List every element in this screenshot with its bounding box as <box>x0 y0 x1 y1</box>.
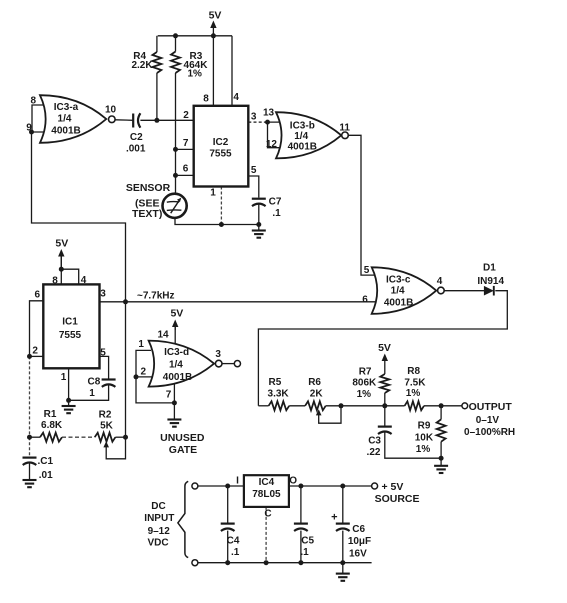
svg-text:C7: C7 <box>269 196 282 207</box>
svg-text:R1: R1 <box>44 409 57 420</box>
capacitor C1 <box>23 457 37 459</box>
wire C7 to ground <box>258 205 260 225</box>
svg-text:VDC: VDC <box>147 538 168 549</box>
wire IC2 pin 5 to C7 <box>248 176 258 198</box>
terminal DC input minus <box>192 560 198 566</box>
svg-text:R5: R5 <box>269 377 282 388</box>
capacitor C4 <box>221 522 235 524</box>
wire R5 R6 divider line <box>258 405 268 407</box>
svg-text:1%: 1% <box>357 389 372 400</box>
resistor R7 <box>380 374 389 393</box>
wire 5V rail to IC2 pins 8 and 4 <box>158 35 232 37</box>
brace DC input <box>178 481 188 557</box>
svg-text:1/4: 1/4 <box>294 131 308 142</box>
wire IC1 pin 3 7.7kHz line to IC3-c pin 6 <box>100 301 379 303</box>
wire IC2 pin 1 to sensor return <box>220 187 222 225</box>
wire DC input top rail <box>198 485 244 487</box>
node R1 C1 <box>27 435 32 440</box>
svg-text:3: 3 <box>100 289 106 300</box>
op-amp gate IC3-d <box>149 341 215 387</box>
wire IC4 common lead <box>265 507 267 563</box>
svg-text:806K: 806K <box>352 378 377 389</box>
svg-text:5V: 5V <box>209 9 222 21</box>
svg-text:GATE: GATE <box>169 444 197 456</box>
wire IC1 pin 5 to C8 <box>100 356 109 378</box>
node R3 pin 7 <box>173 147 178 152</box>
wire IC3-b input pin 12 tie <box>268 122 286 148</box>
wire between R1 and R2 <box>62 436 95 438</box>
potentiometer R2 <box>95 433 116 442</box>
svg-text:4: 4 <box>233 92 239 103</box>
svg-text:5: 5 <box>251 165 257 176</box>
terminal IC3-d output <box>234 361 240 367</box>
ground under IC3-d <box>173 403 175 420</box>
wire C5 leads <box>300 486 302 523</box>
svg-text:2: 2 <box>32 346 38 357</box>
svg-text:4001B: 4001B <box>163 372 192 383</box>
svg-text:+ 5V: + 5V <box>382 481 404 493</box>
svg-text:12: 12 <box>266 139 278 150</box>
svg-text:1: 1 <box>138 339 144 350</box>
wire IC2 pin 4 supply <box>231 36 233 106</box>
wire IC1 pin3 node down to R2 <box>125 302 127 437</box>
capacitor C8 <box>102 378 116 380</box>
svg-text:IC3-d: IC3-d <box>164 347 189 358</box>
svg-text:INPUT: INPUT <box>144 513 174 524</box>
svg-text:IC3-c: IC3-c <box>386 274 411 285</box>
svg-text:.01: .01 <box>39 470 53 481</box>
svg-text:R7: R7 <box>359 366 372 377</box>
svg-text:.C1: .C1 <box>38 456 54 467</box>
svg-text:2K: 2K <box>310 388 324 399</box>
svg-text:.001: .001 <box>126 143 146 154</box>
wire R2 wiper loop <box>106 437 125 459</box>
svg-text:1/4: 1/4 <box>58 114 72 125</box>
svg-text:5: 5 <box>364 265 370 276</box>
svg-text:C5: C5 <box>301 535 314 546</box>
wire IC3-c output pin 4 to D1 <box>444 290 484 292</box>
node IC3-a pin 9 <box>29 130 34 135</box>
svg-text:5V: 5V <box>170 308 183 320</box>
svg-text:C3: C3 <box>368 435 381 446</box>
svg-text:3.3K: 3.3K <box>268 388 290 399</box>
potentiometer R6 <box>305 401 326 410</box>
node R7 junction <box>382 403 387 408</box>
node R3 pin 6 <box>173 173 178 178</box>
node 13 <box>265 120 270 125</box>
wire IC2 pin 6 <box>176 174 194 176</box>
svg-text:R6: R6 <box>308 377 321 388</box>
wire sensor bottom return <box>175 219 259 225</box>
svg-text:5V: 5V <box>55 237 68 249</box>
svg-text:4001B: 4001B <box>51 126 80 137</box>
svg-text:IC3-a: IC3-a <box>54 102 79 113</box>
wire DC input bottom rail <box>198 562 372 564</box>
svg-text:6: 6 <box>35 289 41 300</box>
wire C6 leads <box>342 486 344 523</box>
node R4 C2 pin2 <box>154 118 159 123</box>
svg-text:R2: R2 <box>99 409 112 420</box>
svg-text:1: 1 <box>61 372 67 383</box>
svg-text:8: 8 <box>31 95 37 106</box>
ground under R9 <box>440 458 442 466</box>
wire D1 cathode return to R5 <box>258 291 507 406</box>
node C4 top <box>225 484 230 489</box>
wire IC3-b input pin 13 stub <box>268 121 286 123</box>
terminal OUTPUT <box>462 403 468 409</box>
svg-text:3: 3 <box>215 349 221 360</box>
node IC1 output 7.7kHz <box>123 299 128 304</box>
svg-text:1%: 1% <box>406 388 421 399</box>
svg-text:4: 4 <box>437 276 443 287</box>
wire IC3-d output stub <box>222 363 234 365</box>
node C5 bottom <box>298 560 303 565</box>
wire IC1 pin 2 stub <box>30 355 44 357</box>
capacitor C7 <box>252 198 266 200</box>
capacitor C5 <box>294 522 308 524</box>
svg-text:16V: 16V <box>349 548 367 559</box>
svg-text:7.5K: 7.5K <box>404 378 426 389</box>
wire IC3-b output pin 11 to IC3-c pin 5 <box>348 135 378 275</box>
svg-text:2: 2 <box>183 110 189 121</box>
svg-text:UNUSED: UNUSED <box>160 432 205 444</box>
svg-text:5: 5 <box>100 348 106 359</box>
svg-text:1/4: 1/4 <box>169 359 183 370</box>
svg-text:D1: D1 <box>483 262 496 273</box>
svg-text:6: 6 <box>362 295 368 306</box>
svg-text:SENSOR: SENSOR <box>126 182 171 194</box>
voltage regulator IC4 78L05 <box>244 475 289 507</box>
svg-text:4001B: 4001B <box>288 142 317 153</box>
svg-text:1%: 1% <box>187 68 202 79</box>
op-amp IC1 7555 box <box>43 284 99 368</box>
wire R6 wiper loop <box>319 406 341 423</box>
wire IC3-d pin 7 lead <box>173 384 175 403</box>
svg-text:+: + <box>331 511 337 523</box>
wire C4 leads <box>227 486 229 523</box>
svg-text:3: 3 <box>251 111 257 122</box>
wire R7 top lead to 5V <box>384 359 386 374</box>
node R2 wiper <box>123 435 128 440</box>
svg-text:C6: C6 <box>352 524 365 535</box>
node C7 ground <box>256 222 261 227</box>
svg-text:5K: 5K <box>100 420 114 431</box>
node R3 top <box>173 33 178 38</box>
node C4 bottom <box>225 560 230 565</box>
node IC3-d pin 2 <box>134 374 139 379</box>
wire IC3-d supply pin 14 <box>174 326 176 343</box>
svg-text:6: 6 <box>183 164 189 175</box>
ground under C1 <box>23 479 37 481</box>
node IC3-d pin 7 <box>172 400 177 405</box>
wire IC3-a output to C2 <box>115 119 133 122</box>
resistor R8 <box>405 401 424 410</box>
op-amp IC2 7555 box <box>194 106 249 187</box>
wire C3 top lead <box>384 406 386 426</box>
op-amp gate IC3-c <box>372 267 437 314</box>
sensor (see text) <box>163 194 187 218</box>
wire feedback IC3-a input from IC1 pin 3 <box>32 132 126 302</box>
svg-text:78L05: 78L05 <box>252 489 281 500</box>
svg-text:10: 10 <box>105 104 117 115</box>
svg-text:8: 8 <box>52 275 58 286</box>
svg-text:0–1V: 0–1V <box>476 415 500 426</box>
wire C1 bottom to ground <box>29 463 31 480</box>
wire C3 bottom to R9 ground node <box>385 432 441 458</box>
node sensor pin1 <box>219 222 224 227</box>
node R6 wiper <box>339 403 344 408</box>
wire IC1 pin 1 to ground <box>68 368 70 400</box>
wire R3 bottom to pins 7,6 and sensor <box>175 73 177 195</box>
node R8 R9 output <box>439 403 444 408</box>
node IC1 pin 2 <box>27 354 32 359</box>
wire IC3-d input tie to pin 7 ground <box>136 377 174 403</box>
wire IC2 pin 7 <box>176 148 194 150</box>
svg-text:0–100%RH: 0–100%RH <box>464 427 515 438</box>
svg-text:9–12: 9–12 <box>148 526 171 537</box>
svg-text:C8: C8 <box>88 377 101 388</box>
ground under IC1 pin 1 <box>68 400 70 406</box>
wire output node <box>441 405 462 407</box>
wire C1 top lead <box>29 437 31 457</box>
node 5V rail <box>211 33 216 38</box>
svg-text:7555: 7555 <box>209 149 232 160</box>
svg-text:6.8K: 6.8K <box>41 420 63 431</box>
wire R1 left lead <box>30 436 41 438</box>
wire R9 leads <box>440 406 442 420</box>
resistor R9 <box>437 419 446 441</box>
wire IC3-d pins 1,2 tie <box>136 350 153 377</box>
svg-text:2.2K: 2.2K <box>131 60 153 71</box>
svg-text:SOURCE: SOURCE <box>375 493 420 505</box>
svg-text:IC4: IC4 <box>259 477 275 488</box>
svg-text:10μF: 10μF <box>348 536 371 547</box>
node C6 top <box>340 484 345 489</box>
wire C8 bottom to pin 1 node <box>69 385 109 400</box>
svg-text:R9: R9 <box>418 421 431 432</box>
wire IC2 pin 3 to node 13 <box>248 121 267 123</box>
svg-text:2: 2 <box>141 367 147 378</box>
svg-text:1: 1 <box>89 388 95 399</box>
node IC1 supply <box>59 267 64 272</box>
wire R2 right lead <box>115 436 125 438</box>
node R9 ground <box>439 456 444 461</box>
op-amp gate IC3-a <box>40 95 106 143</box>
svg-text:.1: .1 <box>272 208 281 219</box>
svg-text:C4: C4 <box>227 535 240 546</box>
ground under C6 <box>342 563 344 573</box>
svg-text:11: 11 <box>339 123 350 134</box>
svg-text:OUTPUT: OUTPUT <box>469 401 513 413</box>
capacitor C6 electrolytic <box>336 522 350 524</box>
node IC1 pin 1 <box>66 398 71 403</box>
svg-text:7: 7 <box>166 390 172 401</box>
svg-text:7: 7 <box>183 138 189 149</box>
capacitor C2 <box>132 114 134 128</box>
resistor R5 <box>269 401 290 410</box>
svg-text:1/4: 1/4 <box>391 286 405 297</box>
capacitor C3 <box>378 426 392 428</box>
node C6 bottom <box>340 560 345 565</box>
ground under C7 <box>258 225 260 231</box>
terminal DC input plus <box>192 483 198 489</box>
svg-text:IC2: IC2 <box>213 137 229 148</box>
svg-text:13: 13 <box>263 108 275 119</box>
svg-text:IC1: IC1 <box>62 316 78 327</box>
svg-text:14: 14 <box>157 329 169 340</box>
svg-text:.22: .22 <box>367 447 381 458</box>
resistor R4 <box>152 52 161 73</box>
wire IC1 pin 6 to pin 2 tie <box>30 301 44 357</box>
node C5 top <box>298 484 303 489</box>
svg-text:5V: 5V <box>378 342 391 354</box>
node IC4 common bottom <box>264 560 269 565</box>
op-amp gate IC3-b <box>276 112 341 158</box>
wire C2 to IC2 pin 2 <box>140 119 193 121</box>
svg-text:O: O <box>289 476 297 487</box>
svg-text:10K: 10K <box>415 432 434 443</box>
wire IC2 pin 8 supply <box>212 36 214 106</box>
svg-text:~7.7kHz: ~7.7kHz <box>137 290 175 301</box>
svg-text:4: 4 <box>81 275 87 286</box>
wire IC1 supply 5V to pins 8,4 <box>60 255 62 284</box>
svg-text:7555: 7555 <box>59 330 82 341</box>
wire IC3-a pins 8,9 tie <box>32 105 46 132</box>
svg-text:DC: DC <box>151 501 165 512</box>
svg-text:I: I <box>236 476 239 487</box>
svg-text:IN914: IN914 <box>477 276 504 287</box>
resistor R1 <box>40 433 62 442</box>
svg-text:1: 1 <box>210 188 216 199</box>
svg-text:4001B: 4001B <box>384 298 413 309</box>
wire IC1 pins 2,6 down to R1 <box>29 356 31 437</box>
diode D1 IN914 <box>484 286 494 296</box>
wire R4 bottom lead <box>156 73 158 120</box>
wire R3/R4 top leads <box>156 36 158 52</box>
resistor R3 <box>171 52 180 74</box>
svg-text:.1: .1 <box>231 547 240 558</box>
svg-text:.1: .1 <box>300 547 309 558</box>
svg-text:8: 8 <box>203 94 209 105</box>
svg-text:R8: R8 <box>407 366 420 377</box>
terminal 5V source <box>372 483 378 489</box>
svg-text:C2: C2 <box>130 132 143 143</box>
svg-text:TEXT): TEXT) <box>132 208 162 220</box>
svg-text:C: C <box>264 509 271 520</box>
svg-text:1%: 1% <box>416 444 431 455</box>
